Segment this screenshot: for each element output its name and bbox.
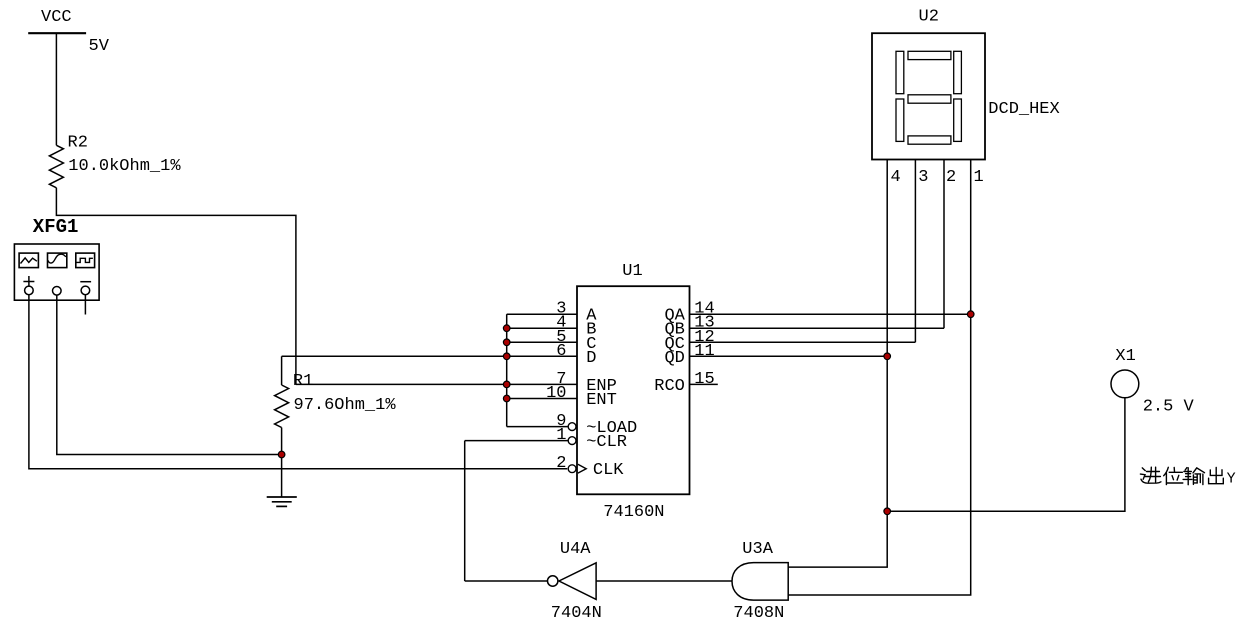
svg-text:15: 15 [694, 370, 714, 389]
svg-text:10.0kOhm_1%: 10.0kOhm_1% [68, 157, 181, 176]
wire QB row [690, 327, 945, 329]
svg-text:U1: U1 [622, 262, 642, 281]
inverter U4A 7404N [548, 563, 597, 600]
ground [267, 455, 297, 507]
svg-text:2.5 V: 2.5 V [1143, 398, 1195, 417]
wire ENT row [507, 398, 577, 400]
wire QC row [690, 341, 916, 343]
wire inverter output [465, 580, 548, 582]
svg-text:DCD_HEX: DCD_HEX [988, 100, 1059, 119]
svg-text:3: 3 [918, 168, 928, 187]
svg-text:XFG1: XFG1 [33, 216, 79, 238]
junction D [503, 353, 510, 360]
counter U1 74160N box [577, 286, 690, 494]
svg-text:R1: R1 [293, 372, 313, 391]
wire ~CLR row [465, 440, 569, 442]
junction QD column [884, 353, 891, 360]
svg-text:74160N: 74160N [603, 503, 664, 522]
svg-text:ENT: ENT [586, 391, 617, 410]
svg-text:CLK: CLK [593, 461, 624, 480]
junction ground node [278, 451, 285, 458]
junction B [503, 325, 510, 332]
wire U2 pin1 column [788, 160, 971, 596]
CLK edge wedge [578, 464, 586, 473]
svg-text:Y: Y [1227, 471, 1236, 488]
svg-text:4: 4 [891, 168, 901, 187]
junction carry node [884, 508, 891, 515]
svg-text:5V: 5V [89, 37, 110, 56]
wire C row [507, 341, 577, 343]
wire R1 top lead [281, 356, 283, 385]
svg-text:RCO: RCO [654, 377, 685, 396]
svg-text:VCC: VCC [41, 8, 72, 27]
wire carry output to X1 [887, 398, 1125, 512]
label 进位输出 (drawn strokes) [1140, 467, 1223, 485]
function generator XFG1 [14, 244, 99, 300]
pin 1 bubble ~CLR [568, 437, 576, 445]
wire inverter input to AND output [596, 580, 732, 582]
svg-text:R2: R2 [68, 133, 88, 152]
svg-text:11: 11 [694, 342, 714, 361]
svg-text:1: 1 [556, 426, 566, 445]
svg-text:10: 10 [546, 384, 566, 403]
svg-text:7408N: 7408N [733, 604, 784, 623]
svg-text:2: 2 [946, 168, 956, 187]
resistor R2 [49, 145, 63, 188]
svg-text:U4A: U4A [560, 540, 591, 559]
power VCC [28, 32, 86, 34]
wire ENP row [296, 383, 577, 385]
svg-text:1: 1 [974, 168, 984, 187]
junction C [503, 339, 510, 346]
wire bus vertical [506, 314, 508, 426]
wire XFG1 plus to CLK [29, 295, 567, 469]
char 输 [1183, 468, 1204, 485]
wire QA row [690, 313, 971, 315]
svg-text:U3A: U3A [742, 540, 773, 559]
svg-text:~CLR: ~CLR [586, 433, 627, 452]
wire U2 pin3 column [914, 160, 916, 343]
wire XFG1 mid to ground node [57, 295, 282, 455]
wire ~CLR feed vertical [464, 441, 466, 581]
wire VCC to R2 [55, 33, 57, 145]
display U2 DCD_HEX box [872, 33, 985, 159]
wire B row [507, 327, 577, 329]
char 出 [1209, 468, 1224, 484]
probe X1 [1111, 370, 1139, 398]
junction ENT [503, 395, 510, 402]
wire RCO stub pin 15 [690, 383, 718, 385]
wire D row [282, 355, 577, 357]
char 位 [1164, 467, 1183, 484]
resistor R1 [275, 385, 289, 428]
svg-text:6: 6 [556, 342, 566, 361]
svg-text:7404N: 7404N [551, 604, 602, 623]
AND gate U3A 7408N (mirrored, inputs right) [732, 563, 788, 601]
wire U2 pin2 column [943, 160, 945, 329]
wire A row [507, 313, 577, 315]
pin 2 bubble CLK [568, 465, 576, 473]
wire QD row [690, 355, 888, 357]
svg-text:U2: U2 [919, 8, 939, 27]
svg-text:QD: QD [664, 349, 684, 368]
svg-text:97.6Ohm_1%: 97.6Ohm_1% [294, 396, 397, 415]
seven segment digit [896, 51, 961, 144]
wire R2 bottom to corner [56, 188, 296, 385]
svg-text:D: D [586, 349, 596, 368]
junction ENP [503, 381, 510, 388]
junction QA column [967, 311, 974, 318]
wire R1 bottom lead [281, 428, 283, 455]
wire U2 pin4 column [788, 160, 887, 568]
wire XFG1 minus stub [84, 295, 86, 315]
pin 9 bubble ~LOAD [568, 423, 576, 431]
char 进 [1140, 467, 1161, 483]
wire ~LOAD row [507, 426, 569, 428]
svg-text:X1: X1 [1115, 347, 1135, 366]
svg-text:2: 2 [556, 454, 566, 473]
